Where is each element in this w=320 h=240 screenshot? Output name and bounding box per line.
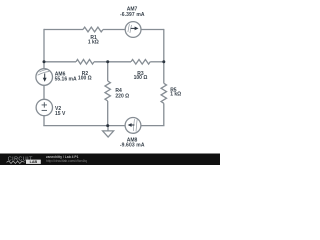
footer logo resistor squiggle — [7, 161, 25, 164]
junction node D (ground, bottom) — [106, 124, 109, 127]
wire R4 to bottom wire — [107, 101, 109, 126]
resistor R2 — [76, 60, 94, 65]
ammeter AM8 circle — [125, 118, 141, 134]
svg-text:100 Ω: 100 Ω — [134, 75, 148, 81]
resistor R1 — [83, 27, 103, 32]
svg-text:-6.397 mA: -6.397 mA — [120, 12, 145, 18]
ammeter AM6 needle and arrow — [38, 70, 50, 82]
resistor R4 — [105, 81, 110, 101]
wire left branch top to AM6 — [43, 29, 45, 69]
junction node A (left, second row) — [43, 60, 46, 63]
svg-text:55.16 mA: 55.16 mA — [55, 76, 77, 82]
svg-text:1 kΩ: 1 kΩ — [170, 92, 181, 98]
junction node B (middle, second row) — [106, 60, 109, 63]
wire bottom from left corner to AM8 — [43, 125, 125, 127]
svg-text:http://circuitlab.com/c9cn4tq: http://circuitlab.com/c9cn4tq — [46, 159, 87, 163]
ground stub — [107, 126, 109, 131]
wire middle branch down to R4 — [107, 62, 109, 81]
svg-text:15 V: 15 V — [55, 111, 66, 117]
svg-text:-9.603 mA: -9.603 mA — [120, 143, 145, 149]
wire AM8 to bottom-right corner — [141, 125, 165, 127]
wire V2 to bottom-left corner — [43, 116, 45, 126]
wire AM7 to top-right corner — [141, 29, 164, 31]
wire right branch down — [163, 29, 165, 83]
svg-text:100 Ω: 100 Ω — [78, 75, 92, 81]
ammeter AM8 needle and arrow — [128, 119, 137, 131]
voltage source V2 plus sign — [42, 102, 47, 110]
voltage source V2 minus sign — [42, 109, 47, 111]
svg-text:LAB: LAB — [30, 160, 38, 164]
svg-text:220 Ω: 220 Ω — [115, 94, 129, 100]
footer bar — [0, 154, 220, 166]
ammeter AM6 circle — [36, 69, 53, 86]
resistor R5 — [161, 83, 166, 103]
svg-text:1 kΩ: 1 kΩ — [88, 40, 99, 46]
wire AM6 to V2 — [43, 85, 45, 99]
ammeter AM7 needle and arrow — [128, 24, 139, 33]
footer logo LAB box — [26, 160, 41, 164]
wire top-left to R1 — [44, 29, 83, 31]
ammeter AM7 circle — [125, 22, 141, 38]
voltage source V2 circle — [36, 99, 52, 115]
resistor R3 — [131, 60, 150, 65]
ground symbol triangle — [103, 131, 114, 137]
junction node C (right, second row) — [162, 60, 165, 63]
wire second row from left branch to R2 — [43, 61, 76, 63]
wire R5 to bottom-right corner — [163, 103, 165, 125]
wire R1 to AM7 — [103, 29, 125, 31]
wire R3 to right branch — [150, 61, 164, 63]
wire R2 to middle junction — [94, 61, 131, 63]
